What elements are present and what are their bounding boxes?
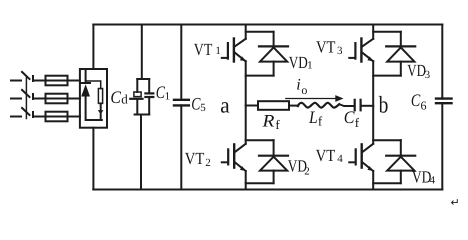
svg-text:C: C [344,107,355,127]
svg-text:3: 3 [337,45,343,57]
svg-text:5: 5 [200,102,206,114]
svg-text:VT: VT [194,40,213,59]
svg-text:f: f [318,114,323,129]
svg-text:C: C [110,87,121,107]
svg-text:2: 2 [205,157,211,169]
svg-text:VD: VD [407,61,426,80]
svg-text:C: C [411,90,421,110]
svg-text:↵: ↵ [451,197,460,209]
svg-text:b: b [379,93,389,119]
svg-text:3: 3 [425,69,431,81]
svg-text:1: 1 [215,45,221,57]
svg-text:VD: VD [412,168,432,187]
svg-text:f: f [275,117,280,132]
svg-text:a: a [220,93,230,118]
svg-text:i: i [296,77,300,94]
svg-text:6: 6 [421,99,427,113]
svg-text:4: 4 [337,153,343,165]
svg-text:4: 4 [430,175,436,187]
svg-text:VT: VT [316,38,336,57]
svg-text:1: 1 [165,91,171,103]
svg-text:C: C [191,93,200,113]
svg-text:1: 1 [307,60,313,72]
svg-text:f: f [355,115,360,130]
svg-text:o: o [301,83,307,97]
svg-text:VD: VD [289,53,308,72]
svg-text:VT: VT [316,146,336,165]
svg-text:L: L [308,107,318,127]
svg-text:d: d [121,92,128,107]
svg-text:2: 2 [304,166,310,178]
svg-text:R: R [261,110,274,130]
svg-text:VT: VT [185,149,205,168]
